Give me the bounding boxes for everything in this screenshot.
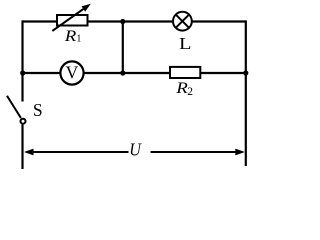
svg-text:L: L: [179, 35, 191, 54]
svg-text:U: U: [129, 140, 142, 160]
label U: [129, 140, 142, 160]
label R2: [175, 80, 193, 99]
junction dot middle row: [120, 70, 125, 75]
wire top horizontal: [23, 20, 246, 22]
junction dot top middle: [120, 19, 125, 24]
lamp L: [173, 12, 192, 31]
label S: [33, 100, 43, 120]
resistor R1 (rheostat body): [57, 15, 88, 26]
svg-text:R: R: [64, 28, 77, 45]
U arrow right: [151, 149, 245, 156]
rheostat R1 arrow: [52, 4, 91, 31]
wire middle horizontal: [23, 72, 246, 74]
wire left vertical upper: [21, 20, 23, 101]
svg-text:1: 1: [76, 34, 81, 45]
label R1: [64, 28, 82, 45]
resistor R2: [170, 67, 200, 78]
U arrow left: [24, 149, 129, 156]
junction dot left middle: [20, 70, 25, 75]
svg-text:S: S: [33, 100, 43, 120]
label L: [179, 35, 191, 54]
switch S pivot: [21, 119, 26, 124]
switch S blade: [7, 96, 21, 118]
wire right vertical: [245, 20, 247, 166]
junction dot right middle: [243, 70, 248, 75]
svg-text:V: V: [66, 62, 79, 82]
voltmeter V: [60, 61, 83, 84]
wire middle vertical: [122, 22, 124, 74]
svg-text:2: 2: [187, 86, 193, 98]
wire left vertical lower: [21, 125, 23, 170]
